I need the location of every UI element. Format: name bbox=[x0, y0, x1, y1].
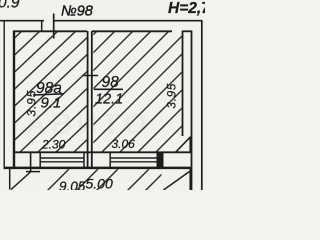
bottom strip hatch bbox=[46, 166, 170, 192]
door leaf upper right bbox=[176, 137, 191, 153]
shaft wall bbox=[191, 31, 193, 191]
right room hatch bbox=[60, 0, 320, 152]
svg-text:9.1: 9.1 bbox=[41, 95, 62, 112]
svg-text:№98: №98 bbox=[61, 4, 93, 20]
fraction bar 98 bbox=[94, 88, 123, 90]
svg-text:12.1: 12.1 bbox=[95, 92, 123, 108]
bottom wall window right room bbox=[109, 152, 111, 168]
window cross vertical bbox=[53, 14, 55, 39]
top wall inner line (far right) bbox=[182, 30, 192, 32]
door leaf bottom-left bbox=[11, 172, 31, 190]
svg-text:3.06: 3.06 bbox=[112, 137, 136, 151]
svg-text:0.9: 0.9 bbox=[0, 0, 20, 12]
door leaf lower right bbox=[164, 172, 190, 191]
far-right wall bbox=[182, 31, 184, 136]
door jamb right upper bbox=[189, 137, 191, 153]
middle wall tick bbox=[82, 75, 98, 77]
top wall inner line (left room) bbox=[13, 30, 87, 32]
door jamb tick bottom-left bbox=[30, 152, 32, 172]
door jamb right lower bbox=[189, 168, 191, 190]
svg-text:98: 98 bbox=[102, 74, 120, 91]
dark pier bbox=[157, 152, 164, 168]
bottom inner line rooms bbox=[13, 151, 191, 153]
left room hatch bbox=[0, 22, 212, 153]
bottom outer wall line bbox=[4, 167, 191, 170]
middle wall between rooms bbox=[87, 31, 89, 168]
left outer wall line bbox=[3, 21, 5, 168]
bottom wall window left room bbox=[39, 152, 41, 168]
jamb dash bbox=[26, 171, 40, 173]
top wall inner line (right room) bbox=[92, 30, 172, 32]
svg-text:3.95: 3.95 bbox=[167, 83, 179, 109]
fraction bar 98a bbox=[33, 94, 64, 95]
left room left wall bbox=[13, 31, 15, 168]
svg-text:Н=2,7: Н=2,7 bbox=[168, 0, 205, 17]
svg-text:5.00: 5.00 bbox=[86, 176, 113, 191]
svg-text:2.30: 2.30 bbox=[41, 138, 66, 152]
window tick top wall bbox=[41, 21, 43, 32]
svg-text:9.05: 9.05 bbox=[59, 179, 86, 190]
top outer wall line bbox=[0, 20, 202, 22]
right outer wall line bbox=[201, 21, 203, 190]
paper background bbox=[0, 0, 205, 190]
door jamb line left bbox=[9, 168, 11, 190]
